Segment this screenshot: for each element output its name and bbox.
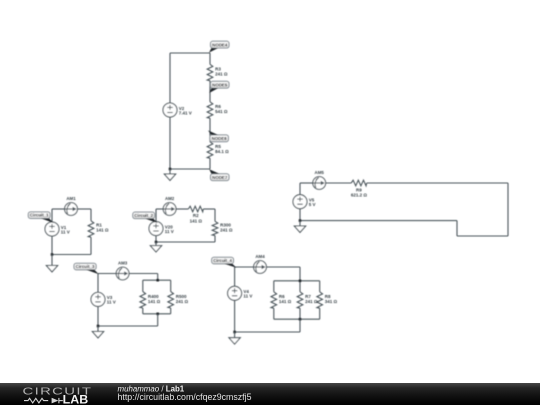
svg-text:LAB: LAB (63, 393, 89, 405)
svg-text:http://circuitlab.com/cfqez9cm: http://circuitlab.com/cfqez9cmszfj5 (118, 392, 252, 402)
